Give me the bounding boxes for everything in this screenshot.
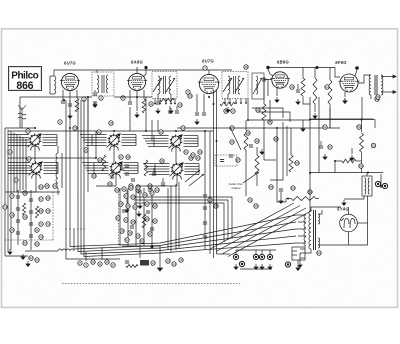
wire ribbon	[84, 164, 95, 166]
wire	[157, 94, 159, 101]
svg-text:74: 74	[3, 205, 7, 209]
callout 83c	[111, 263, 115, 267]
wire	[157, 120, 159, 131]
callout 59	[35, 258, 39, 262]
callout t1	[184, 150, 188, 154]
core T2	[233, 76, 235, 94]
junction	[334, 160, 336, 162]
callout 49	[128, 231, 132, 235]
callout	[10, 194, 14, 198]
junction	[208, 96, 210, 98]
callout 47	[153, 219, 157, 223]
capacitor C4	[93, 93, 97, 95]
wire	[314, 104, 316, 112]
svg-text:33: 33	[92, 174, 96, 178]
wire	[57, 146, 59, 153]
wire	[348, 207, 350, 214]
wire	[356, 160, 362, 162]
callout 9	[121, 96, 125, 100]
pin stub	[165, 99, 167, 104]
svg-text:30: 30	[115, 188, 119, 192]
capacitor	[16, 232, 20, 234]
callout 26	[14, 178, 18, 182]
resistor	[22, 203, 25, 215]
ground	[21, 254, 25, 259]
capacitor C29	[152, 173, 156, 175]
callout 15	[188, 94, 192, 98]
svg-text:23: 23	[8, 150, 12, 154]
resistor R21	[360, 133, 364, 152]
ground	[226, 107, 230, 112]
variable capacitor C1b	[107, 133, 121, 150]
svg-text:11: 11	[98, 262, 101, 266]
svg-text:51: 51	[323, 125, 327, 129]
callout 42	[230, 126, 234, 130]
resistor	[142, 214, 146, 228]
callout 41d	[155, 188, 159, 192]
callout 41e	[108, 182, 112, 186]
capacitor C33	[319, 146, 323, 148]
callout 35	[160, 159, 164, 163]
wire	[276, 88, 278, 96]
junction	[361, 119, 363, 121]
pointer arrow	[243, 172, 259, 183]
ground	[260, 264, 264, 269]
callout 80	[78, 261, 82, 265]
ground	[125, 207, 129, 212]
svg-text:35: 35	[254, 204, 258, 208]
capacitor	[130, 226, 134, 228]
callout 36	[143, 193, 147, 197]
wire left bus	[7, 130, 9, 253]
wire trunk	[87, 97, 89, 192]
svg-text:40: 40	[133, 205, 137, 209]
wire grid cap V4	[268, 69, 273, 76]
wire	[348, 232, 350, 245]
capacitor C28	[131, 179, 135, 181]
trimmer arrow	[153, 78, 162, 92]
resistor R9	[301, 78, 305, 96]
pot left arrow	[286, 198, 291, 200]
svg-text:44: 44	[124, 218, 128, 222]
capacitor C32	[220, 160, 224, 162]
wire	[245, 150, 247, 196]
wire	[35, 173, 37, 192]
wire riser	[318, 97, 320, 173]
wire	[247, 98, 249, 120]
callout 35	[254, 204, 258, 208]
callout 50	[328, 145, 332, 149]
wire	[296, 242, 306, 244]
svg-text:63: 63	[35, 258, 39, 262]
capacitor	[29, 235, 33, 237]
wire	[297, 260, 299, 264]
callout 34	[248, 198, 252, 202]
wire vertical pair	[175, 184, 177, 250]
grid cap V4	[266, 66, 269, 69]
wire	[5, 191, 60, 193]
wire rail y119	[310, 119, 375, 121]
ground	[296, 265, 300, 270]
svg-text:26: 26	[14, 178, 18, 182]
wire	[269, 250, 271, 254]
wire	[25, 250, 58, 252]
svg-text:75: 75	[73, 126, 77, 130]
wire	[96, 70, 98, 73]
wire antenna lead	[54, 70, 70, 76]
svg-text:45: 45	[131, 220, 135, 224]
wire	[61, 153, 63, 188]
capacitor	[125, 261, 129, 263]
wire	[176, 174, 178, 186]
wire loom diagonal	[216, 206, 300, 252]
wire top bus	[70, 69, 232, 71]
svg-text:37: 37	[119, 155, 123, 159]
callout 41b	[136, 188, 140, 192]
wire	[169, 106, 171, 110]
dashed box detector filter	[215, 155, 237, 166]
callout 83	[98, 262, 102, 266]
svg-text:14: 14	[172, 262, 176, 266]
svg-text:48: 48	[246, 131, 250, 135]
trimmer arrow	[223, 78, 232, 92]
wire ribbon	[87, 170, 95, 172]
wire left bus	[16, 134, 18, 192]
svg-text:36: 36	[143, 193, 147, 197]
capacitor	[16, 220, 20, 222]
terminal	[285, 262, 290, 267]
trimmer arrow	[166, 78, 175, 92]
capacitor	[146, 211, 150, 213]
callout 47	[308, 190, 312, 194]
trimmer arrow	[185, 170, 200, 182]
capacitor C17	[263, 77, 265, 81]
wire	[290, 128, 292, 155]
wire rail	[114, 96, 152, 98]
callout 6	[99, 96, 103, 100]
resistor R5	[160, 98, 174, 101]
junction	[247, 119, 249, 121]
capacitor C31	[229, 155, 233, 157]
svg-text:55: 55	[372, 144, 376, 148]
svg-text:53: 53	[198, 150, 202, 154]
svg-text:53: 53	[140, 239, 144, 243]
svg-text:22: 22	[23, 241, 27, 245]
pin stub	[154, 99, 156, 104]
ground	[195, 119, 199, 124]
wire	[159, 246, 161, 265]
ground	[169, 108, 173, 113]
wire	[196, 94, 198, 112]
coil right of C1b	[122, 135, 137, 146]
resistor R18b	[255, 155, 259, 175]
trimmer arrow	[253, 78, 262, 94]
wire bus loom	[78, 228, 296, 252]
callout t2	[191, 153, 195, 157]
wire ribbon	[145, 140, 154, 142]
wire ribbon	[146, 168, 155, 170]
grid cap V3 dot	[316, 66, 319, 69]
callout 34	[124, 194, 128, 198]
callout 38	[126, 155, 130, 159]
coil T2 secondary	[238, 76, 240, 94]
wire	[335, 161, 342, 173]
terminal	[267, 254, 272, 259]
callout	[39, 222, 43, 226]
wire	[21, 120, 23, 128]
connector plug	[292, 247, 305, 260]
wire	[69, 90, 71, 103]
pin stub	[159, 99, 161, 104]
wire	[94, 90, 96, 92]
svg-text:31: 31	[97, 130, 101, 134]
capacitor	[148, 189, 152, 191]
wire step	[252, 108, 283, 118]
wire trunk	[83, 100, 85, 230]
wire ribbon	[147, 143, 155, 145]
svg-text:52: 52	[125, 238, 129, 242]
wire ribbon	[82, 162, 94, 164]
callout avc	[274, 137, 278, 141]
callout 16	[224, 109, 228, 113]
antenna coil L1	[50, 76, 56, 94]
callout 21	[268, 120, 272, 124]
svg-text:65: 65	[269, 185, 273, 189]
arrow terminal	[380, 174, 382, 188]
wire ribbon	[149, 173, 155, 175]
resistor R10	[313, 78, 317, 104]
svg-text:18: 18	[244, 65, 248, 69]
junction	[63, 99, 65, 101]
wire	[143, 90, 145, 99]
oscillator coil L4	[56, 153, 58, 188]
wire left bus	[10, 131, 12, 250]
svg-text:50: 50	[274, 137, 278, 141]
ground	[234, 264, 238, 269]
wire ribbon	[142, 135, 154, 137]
callout	[10, 213, 14, 217]
svg-text:13: 13	[166, 259, 170, 263]
rectifier tube V6 5Y4G	[340, 214, 358, 232]
svg-text:5Y4G: 5Y4G	[337, 207, 349, 212]
wire ribbon	[144, 137, 155, 139]
svg-text:36: 36	[108, 182, 112, 186]
svg-text:37: 37	[150, 191, 154, 195]
svg-text:47: 47	[153, 219, 157, 223]
wire OT to speaker	[381, 75, 396, 78]
svg-text:6U7G: 6U7G	[202, 59, 214, 64]
ground	[68, 113, 72, 118]
wire	[129, 107, 131, 131]
svg-text:56: 56	[357, 125, 361, 129]
callout	[39, 209, 43, 213]
capacitor C18	[296, 90, 300, 92]
wire OT to speaker	[381, 91, 396, 94]
capacitor C15	[202, 113, 206, 115]
junction	[95, 157, 97, 159]
wire vertical pair	[167, 188, 169, 250]
ground	[301, 126, 305, 131]
wire rail y119	[310, 118, 373, 120]
svg-text:43: 43	[116, 216, 120, 220]
wire	[143, 188, 145, 246]
ground	[8, 249, 12, 254]
wire	[62, 90, 64, 100]
wire plate to OT	[358, 75, 371, 83]
wire	[95, 131, 97, 158]
svg-text:6B8G: 6B8G	[277, 60, 289, 65]
callout 35	[131, 195, 135, 199]
shield dashes	[118, 188, 120, 245]
svg-text:49: 49	[128, 231, 132, 235]
capacitor C30	[161, 183, 165, 185]
terminal	[239, 261, 244, 266]
wire bus loom	[81, 228, 296, 254]
coil left of C2c	[155, 164, 170, 175]
junction	[145, 130, 147, 132]
ground	[135, 112, 139, 117]
svg-text:21: 21	[35, 228, 39, 232]
tube V2 6A8G	[127, 73, 147, 90]
svg-text:34: 34	[124, 194, 128, 198]
svg-text:34: 34	[248, 198, 252, 202]
wire ribbon	[85, 167, 94, 169]
coil right of C2a	[44, 163, 59, 174]
resistor R28	[126, 265, 138, 268]
svg-text:29: 29	[84, 148, 88, 152]
wire ribbon	[83, 139, 92, 141]
wire	[318, 196, 368, 245]
svg-text:41: 41	[145, 202, 149, 206]
wire grid cap V2	[143, 69, 146, 77]
wire	[299, 253, 301, 262]
resistor R3	[142, 99, 146, 113]
svg-text:57: 57	[328, 145, 332, 149]
wire	[96, 185, 116, 187]
wire ribbon	[8, 134, 29, 136]
capacitor C5	[93, 102, 97, 104]
callout	[3, 205, 7, 209]
coil left of C2b	[94, 163, 109, 174]
wire	[85, 252, 87, 261]
svg-text:19: 19	[23, 215, 27, 219]
grid cap V2	[144, 66, 147, 69]
wire	[320, 141, 322, 145]
wire	[139, 245, 141, 259]
wire ribbon	[8, 144, 29, 146]
svg-text:13: 13	[178, 103, 182, 107]
wire	[217, 253, 231, 255]
callout 29	[84, 148, 88, 152]
capacitor C34	[279, 189, 283, 191]
capacitor C27	[125, 173, 129, 175]
wire	[329, 108, 331, 128]
callout	[39, 185, 43, 189]
callout avc2	[323, 125, 327, 129]
callout 3	[203, 66, 207, 70]
callout 49	[357, 125, 361, 129]
capacitor	[16, 208, 20, 210]
capacitor C7	[128, 102, 132, 104]
variable capacitor C1c	[169, 134, 183, 151]
coil T2 primary	[228, 76, 230, 94]
variable capacitor C1a	[28, 133, 42, 150]
wire	[119, 188, 121, 246]
tube V1 6U7G	[60, 73, 80, 90]
wire trunk	[80, 100, 82, 230]
wire grid cap V5	[355, 70, 357, 76]
capacitor C13b	[175, 111, 179, 113]
callout	[46, 209, 50, 213]
wire ribbon	[85, 142, 93, 144]
svg-text:20: 20	[256, 108, 260, 112]
callout 38	[119, 202, 123, 206]
ground	[298, 262, 302, 267]
wire	[298, 235, 306, 237]
capacitor C12	[156, 102, 160, 104]
svg-text:58: 58	[376, 95, 380, 99]
wire	[170, 94, 172, 98]
capacitor C3	[68, 104, 72, 106]
wire	[134, 203, 224, 242]
ground	[137, 211, 141, 216]
callout 41a	[129, 184, 133, 188]
variable capacitor C2c	[170, 162, 184, 179]
wire rail	[8, 130, 213, 132]
resistor R22	[342, 159, 356, 163]
wire ribbon	[8, 136, 29, 138]
wire	[162, 178, 164, 182]
capacitor	[138, 191, 142, 193]
ground	[343, 98, 347, 103]
callout 46	[145, 217, 149, 221]
wire ribbon	[82, 136, 93, 138]
wire loom diagonal	[222, 208, 306, 254]
callout 22	[181, 126, 185, 130]
wire B+ rail	[20, 96, 92, 98]
wire	[115, 173, 117, 186]
wire	[151, 120, 153, 141]
wire	[361, 97, 363, 120]
callout 25	[375, 97, 379, 101]
junction	[276, 127, 278, 129]
wire bus loom	[84, 228, 296, 257]
wire ribbon	[8, 170, 30, 172]
wire	[5, 255, 28, 257]
svg-text:24: 24	[325, 85, 329, 89]
wire	[263, 82, 265, 105]
wire	[126, 190, 128, 206]
svg-text:60: 60	[317, 251, 321, 255]
svg-text:35: 35	[160, 159, 164, 163]
transformer T4	[362, 176, 372, 196]
callout 30	[26, 129, 30, 133]
power transformer T5	[304, 210, 320, 250]
callout t3	[198, 150, 202, 154]
wire	[230, 127, 241, 150]
wire	[240, 268, 272, 270]
wire loom diagonal	[228, 211, 312, 257]
svg-text:17: 17	[231, 109, 235, 113]
wire	[208, 70, 210, 74]
wire	[57, 188, 59, 195]
wire bus loom	[74, 222, 296, 249]
wire left bus	[4, 128, 6, 256]
svg-text:38: 38	[119, 202, 123, 206]
wire ribbon	[86, 144, 92, 146]
callout	[35, 242, 39, 246]
ground	[342, 200, 346, 205]
